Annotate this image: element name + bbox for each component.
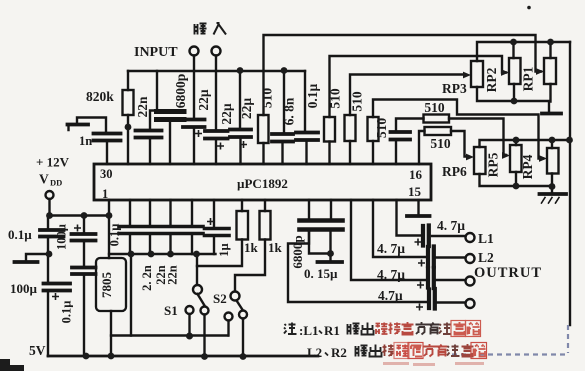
- svg-text:L1: L1: [478, 231, 494, 246]
- svg-text:R2: R2: [331, 345, 347, 360]
- svg-text:L2: L2: [307, 345, 322, 360]
- svg-text:+ 12V: + 12V: [36, 155, 70, 170]
- svg-text:6800p: 6800p: [290, 235, 305, 268]
- svg-text:4.7µ: 4.7µ: [378, 288, 403, 303]
- svg-text:7805: 7805: [99, 272, 114, 299]
- svg-text:L2: L2: [478, 250, 494, 265]
- svg-text:OUTRUT: OUTRUT: [474, 265, 542, 281]
- svg-text:1: 1: [102, 187, 108, 201]
- svg-text:RP1: RP1: [521, 66, 536, 91]
- svg-text:510: 510: [350, 91, 365, 112]
- svg-text:510: 510: [260, 88, 275, 109]
- svg-text:0.1µ: 0.1µ: [108, 224, 122, 247]
- svg-text:1k: 1k: [268, 240, 283, 255]
- svg-text:22n: 22n: [135, 96, 150, 118]
- svg-text:S1: S1: [164, 303, 178, 318]
- svg-text:30: 30: [100, 167, 113, 181]
- svg-text:4. 7µ: 4. 7µ: [377, 241, 405, 256]
- svg-text:RP4: RP4: [520, 154, 535, 179]
- svg-text:0.1µ: 0.1µ: [8, 227, 32, 242]
- svg-text:S2: S2: [213, 291, 227, 306]
- svg-text:6. 8n: 6. 8n: [282, 97, 297, 125]
- svg-text:RP6: RP6: [442, 164, 467, 179]
- svg-text:V: V: [39, 172, 49, 187]
- svg-text:2. 2n: 2. 2n: [140, 265, 154, 291]
- svg-text:µPC1892: µPC1892: [237, 176, 288, 191]
- svg-text:DD: DD: [50, 178, 62, 188]
- svg-text:22µ: 22µ: [196, 89, 211, 111]
- svg-text:100µ: 100µ: [55, 224, 69, 250]
- svg-text:RP2: RP2: [484, 67, 499, 92]
- svg-text:5V: 5V: [29, 343, 46, 358]
- svg-text:0.1µ: 0.1µ: [305, 83, 320, 108]
- svg-text:510: 510: [430, 136, 451, 151]
- svg-text:INPUT: INPUT: [134, 45, 178, 60]
- svg-text:16: 16: [409, 167, 423, 182]
- svg-text:0. 15µ: 0. 15µ: [304, 266, 338, 281]
- svg-text:22n: 22n: [166, 265, 180, 285]
- svg-text:510: 510: [328, 88, 343, 109]
- svg-text:1k: 1k: [244, 240, 259, 255]
- svg-text:RP3: RP3: [442, 81, 467, 96]
- svg-text:820k: 820k: [86, 89, 114, 104]
- svg-text:R1: R1: [324, 323, 340, 338]
- svg-text:100µ: 100µ: [10, 281, 38, 296]
- svg-text:15: 15: [408, 184, 422, 199]
- svg-text:6800p: 6800p: [173, 74, 188, 109]
- svg-text:1n: 1n: [79, 134, 92, 148]
- svg-text:4. 7µ: 4. 7µ: [377, 267, 405, 282]
- svg-text:22µ: 22µ: [219, 103, 234, 125]
- svg-text::L1: :L1: [299, 323, 319, 338]
- svg-text:22µ: 22µ: [239, 98, 254, 120]
- svg-text:510: 510: [374, 118, 389, 139]
- svg-text:RP5: RP5: [486, 152, 501, 177]
- svg-text:1µ: 1µ: [217, 243, 231, 256]
- svg-text:4. 7µ: 4. 7µ: [437, 218, 465, 233]
- svg-text:510: 510: [424, 100, 445, 115]
- svg-text:0.1µ: 0.1µ: [60, 301, 74, 324]
